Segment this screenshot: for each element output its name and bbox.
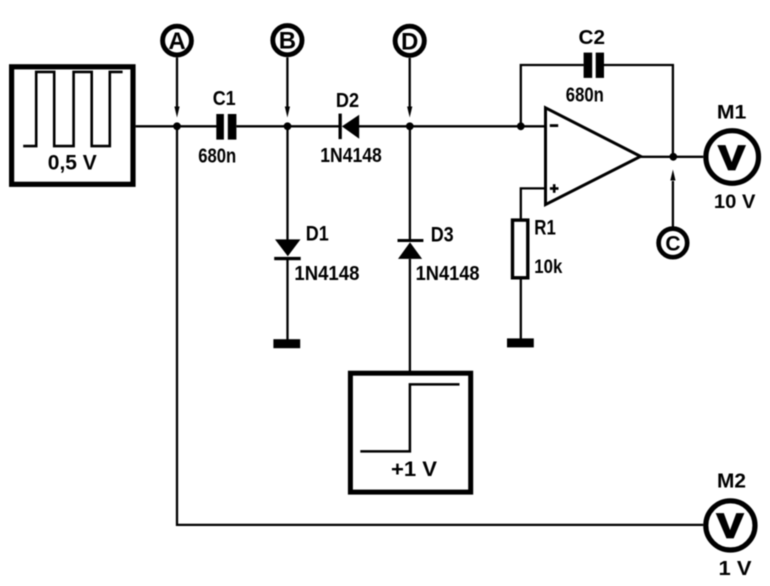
wire feedback up to C2 xyxy=(521,65,584,126)
square-wave source 0,5 V xyxy=(12,67,133,185)
wire D1 to ground xyxy=(286,260,288,340)
node C xyxy=(659,170,688,258)
junction node A dot xyxy=(173,122,181,130)
svg-text:M1: M1 xyxy=(717,101,747,123)
capacitor C1 xyxy=(198,88,236,168)
node A xyxy=(163,26,192,117)
wire op-amp plus input to R1 xyxy=(521,188,546,218)
svg-text:V: V xyxy=(718,139,745,177)
svg-text:10k: 10k xyxy=(534,257,562,278)
capacitor C2 xyxy=(566,26,605,106)
svg-text:D: D xyxy=(401,28,418,55)
wire C1 to D2 xyxy=(237,125,340,127)
svg-text:R1: R1 xyxy=(534,216,556,240)
svg-text:C: C xyxy=(665,232,680,255)
wire node B down to D1 xyxy=(286,126,288,240)
op-amp U1 xyxy=(546,108,641,205)
svg-text:C2: C2 xyxy=(579,26,606,49)
junction node B dot xyxy=(284,122,292,130)
svg-text:D1: D1 xyxy=(306,223,329,246)
wire C2 down to output xyxy=(604,65,673,155)
svg-text:10 V: 10 V xyxy=(714,191,756,213)
svg-text:A: A xyxy=(168,28,185,55)
junction node D dot xyxy=(406,122,414,130)
voltmeter M1 xyxy=(706,101,759,213)
diode D1 xyxy=(274,223,359,285)
diode D2 xyxy=(320,89,382,167)
voltmeter M2 xyxy=(706,470,755,580)
svg-text:C1: C1 xyxy=(213,88,236,110)
svg-text:1 V: 1 V xyxy=(719,558,753,580)
wire R1 to ground xyxy=(520,280,522,340)
svg-text:V: V xyxy=(717,507,744,545)
resistor R1 xyxy=(513,216,563,278)
svg-text:D2: D2 xyxy=(336,89,359,112)
svg-text:1N4148: 1N4148 xyxy=(320,145,382,167)
svg-text:M2: M2 xyxy=(717,470,746,492)
wire source to C1 xyxy=(136,125,217,127)
svg-text:1N4148: 1N4148 xyxy=(294,263,359,285)
junction feedback node dot xyxy=(517,122,525,130)
step source +1 V xyxy=(350,373,470,492)
svg-text:0,5 V: 0,5 V xyxy=(48,152,97,175)
node D xyxy=(395,26,424,117)
wire D3 to step source xyxy=(409,259,411,371)
wire node D down to D3 xyxy=(409,126,411,239)
node B xyxy=(273,26,302,118)
svg-text:B: B xyxy=(279,28,296,55)
wire op-amp output to M1 xyxy=(641,156,704,158)
svg-text:1N4148: 1N4148 xyxy=(416,263,480,285)
svg-text:+1 V: +1 V xyxy=(391,457,438,481)
junction output node dot xyxy=(669,153,677,161)
svg-text:680n: 680n xyxy=(566,84,604,106)
wire node A to M2 xyxy=(177,126,703,525)
svg-text:680n: 680n xyxy=(198,146,236,168)
ground (R1) xyxy=(507,338,534,347)
wire D2 to op-amp xyxy=(359,125,546,127)
svg-text:D3: D3 xyxy=(431,223,454,246)
ground (D1) xyxy=(273,339,300,348)
diode D3 xyxy=(398,223,480,285)
